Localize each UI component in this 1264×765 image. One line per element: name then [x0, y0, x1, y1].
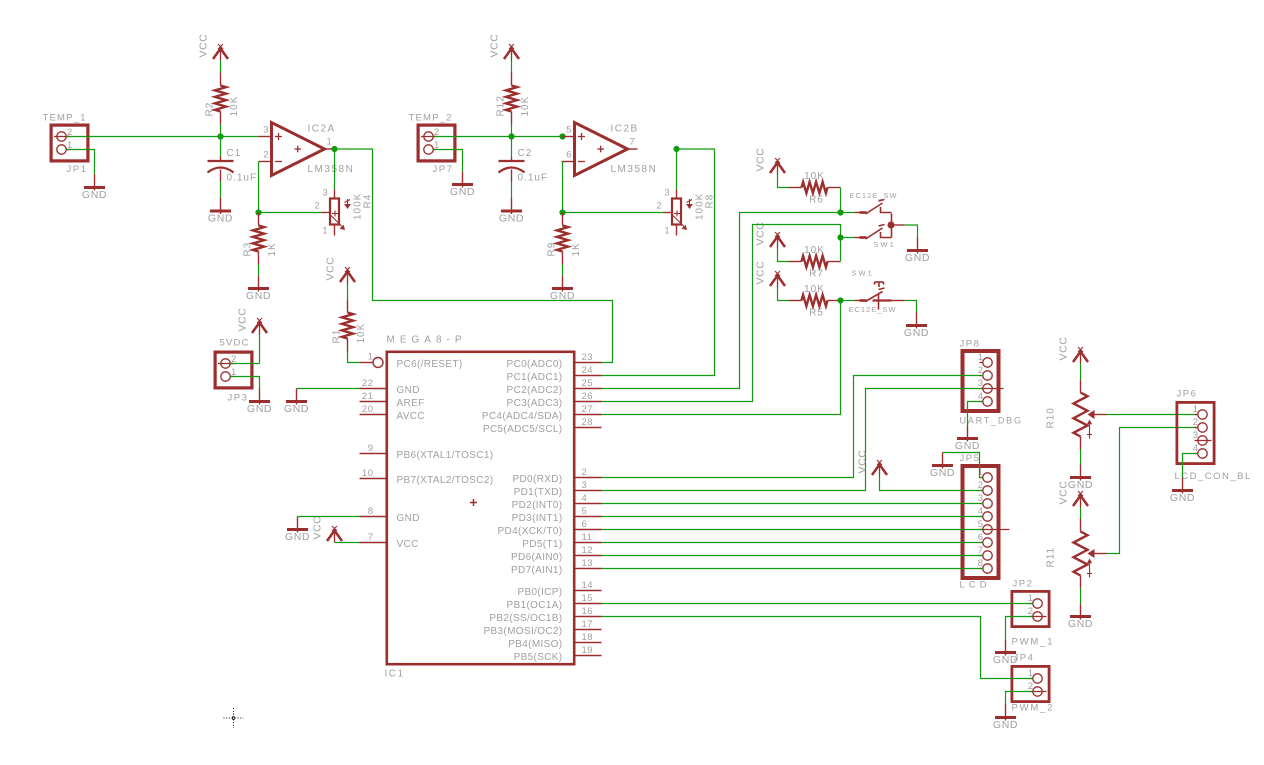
- svg-text:AREF: AREF: [397, 398, 425, 409]
- svg-text:23: 23: [582, 352, 594, 363]
- svg-text:VCC: VCC: [198, 34, 210, 58]
- svg-text:JP8: JP8: [960, 339, 981, 350]
- svg-text:1: 1: [1028, 593, 1033, 604]
- svg-text:2: 2: [582, 467, 588, 478]
- svg-text:JP5: JP5: [960, 453, 981, 464]
- wire: [259, 212, 322, 214]
- power VCC (R1 top): [347, 270, 349, 284]
- svg-text:GND: GND: [208, 213, 233, 225]
- wire (PD7 to JP5.8): [602, 568, 983, 570]
- svg-text:GND: GND: [450, 186, 475, 198]
- potentiometer R11: [1080, 519, 1082, 532]
- svg-text:1: 1: [978, 352, 983, 363]
- svg-text:4: 4: [978, 391, 983, 402]
- svg-text:3: 3: [322, 188, 327, 198]
- svg-text:3: 3: [582, 480, 588, 491]
- svg-text:PD0(RXD): PD0(RXD): [512, 474, 562, 485]
- ground (JP4.2): [1005, 705, 1007, 721]
- power VCC (JP5.2): [879, 463, 881, 477]
- resistor R5 10K: [789, 300, 802, 302]
- ground (JP1): [94, 175, 96, 191]
- capacitor C2 0.1uF: [511, 157, 513, 162]
- ground (C2): [511, 198, 513, 214]
- svg-text:16: 16: [582, 606, 594, 617]
- svg-text:5VDC: 5VDC: [220, 338, 250, 349]
- svg-text:3: 3: [263, 125, 268, 136]
- svg-text:IC1: IC1: [385, 669, 405, 680]
- svg-text:GND: GND: [397, 385, 420, 396]
- op-amp IC2A: [272, 123, 325, 176]
- svg-text:17: 17: [582, 619, 594, 630]
- svg-text:R10: R10: [1046, 407, 1057, 428]
- svg-text:MEGA8-P: MEGA8-P: [387, 335, 467, 346]
- wire: [348, 352, 360, 363]
- svg-text:LCD_CON_BL: LCD_CON_BL: [1175, 471, 1252, 482]
- svg-text:2: 2: [656, 201, 661, 211]
- wire: [434, 150, 463, 172]
- wire (PD1 TXD to JP8.3): [602, 389, 983, 491]
- wire (IC2A out to PC0): [335, 149, 613, 363]
- svg-text:1: 1: [1193, 404, 1198, 415]
- svg-text:LM358N: LM358N: [611, 164, 658, 175]
- wire: [258, 265, 260, 276]
- wire: [778, 249, 789, 262]
- svg-text:10K: 10K: [804, 284, 825, 295]
- svg-text:10K: 10K: [804, 245, 825, 256]
- svg-text:2: 2: [314, 201, 319, 211]
- switch SW1 contact B: [855, 237, 867, 239]
- svg-text:8: 8: [368, 506, 374, 517]
- svg-text:2: 2: [1193, 417, 1198, 428]
- ground (JP7): [462, 172, 464, 188]
- wire: [1080, 450, 1082, 465]
- svg-text:GND: GND: [499, 213, 524, 225]
- svg-text:JP6: JP6: [1177, 389, 1198, 400]
- svg-text:7: 7: [978, 545, 983, 556]
- trimmer R8 100K: [676, 190, 678, 199]
- svg-text:TEMP_1: TEMP_1: [43, 113, 87, 124]
- wire: [231, 377, 260, 389]
- svg-text:27: 27: [582, 404, 594, 415]
- connector JP1 TEMP_1: [51, 125, 88, 161]
- svg-text:20: 20: [362, 404, 374, 415]
- wire (R11 wiper to JP6.2): [1107, 428, 1198, 554]
- wire: [905, 301, 917, 313]
- svg-text:2: 2: [1028, 606, 1033, 617]
- svg-text:TEMP_2: TEMP_2: [409, 113, 453, 124]
- svg-text:VCC: VCC: [755, 261, 767, 285]
- node junction (IC2B out): [673, 146, 679, 152]
- power VCC (R2 top): [220, 47, 222, 61]
- resistor R9 1K: [562, 213, 564, 226]
- svg-text:IC2A: IC2A: [308, 124, 336, 135]
- resistor R6 10K: [789, 187, 802, 189]
- svg-text:1: 1: [368, 352, 374, 363]
- svg-text:2: 2: [978, 480, 983, 491]
- svg-text:SW1: SW1: [874, 240, 896, 249]
- svg-text:22: 22: [362, 378, 374, 389]
- connector JP6 LCD_CON_BL: [1177, 402, 1214, 463]
- wire: [905, 225, 918, 238]
- wire: [258, 162, 260, 213]
- svg-text:PD3(INT1): PD3(INT1): [512, 513, 563, 524]
- svg-text:VCC: VCC: [755, 148, 767, 172]
- svg-text:25: 25: [582, 378, 594, 389]
- svg-text:GND: GND: [955, 440, 980, 452]
- svg-text:6: 6: [566, 150, 571, 161]
- ground (JP3): [259, 389, 261, 405]
- wire: [334, 149, 336, 190]
- resistor R12 10K: [511, 73, 513, 86]
- wire: [347, 284, 349, 300]
- svg-text:SW1: SW1: [852, 269, 874, 278]
- svg-text:GND: GND: [82, 189, 107, 201]
- wire: [563, 212, 664, 214]
- ground (JP6.4): [1182, 478, 1184, 494]
- wire: [1080, 508, 1082, 519]
- wire: [778, 175, 789, 188]
- svg-text:JP3: JP3: [228, 393, 249, 404]
- svg-text:PD1(TXD): PD1(TXD): [514, 487, 563, 498]
- svg-text:PB6(XTAL1/TOSC1): PB6(XTAL1/TOSC1): [397, 450, 494, 461]
- svg-text:10K: 10K: [804, 171, 825, 182]
- wire: [778, 288, 789, 301]
- connector JP4 PWM_2: [1012, 666, 1049, 701]
- ground (SW1 A/B): [917, 238, 919, 254]
- svg-text:EC12E_SW: EC12E_SW: [849, 305, 897, 314]
- svg-text:11: 11: [582, 532, 593, 543]
- svg-text:10K: 10K: [520, 96, 531, 117]
- wire: [676, 149, 678, 190]
- svg-text:R3: R3: [243, 242, 254, 257]
- svg-text:VCC: VCC: [312, 516, 324, 540]
- svg-text:24: 24: [582, 365, 594, 376]
- svg-text:R12: R12: [496, 95, 507, 116]
- ground (SW1 pushbutton): [916, 313, 918, 329]
- svg-text:VCC: VCC: [489, 34, 501, 58]
- wire: [220, 137, 222, 157]
- svg-text:R4: R4: [363, 194, 374, 209]
- svg-text:3: 3: [664, 188, 669, 198]
- ground (R3): [258, 276, 260, 292]
- wire: [298, 516, 360, 518]
- svg-text:VCC: VCC: [755, 222, 767, 246]
- wire: [841, 237, 855, 239]
- wire: [880, 477, 983, 491]
- svg-text:1K: 1K: [571, 242, 582, 256]
- svg-text:PD7(AIN1): PD7(AIN1): [511, 565, 563, 576]
- svg-text:PC5(ADC5/SCL): PC5(ADC5/SCL): [483, 424, 563, 435]
- svg-text:VCC: VCC: [397, 539, 419, 550]
- svg-text:14: 14: [582, 580, 594, 591]
- svg-text:21: 21: [362, 391, 374, 402]
- svg-text:PC6(/RESET): PC6(/RESET): [397, 359, 463, 370]
- svg-text:4: 4: [1193, 443, 1198, 454]
- svg-text:PWM_2: PWM_2: [1012, 703, 1055, 714]
- wire: [231, 363, 260, 365]
- wire: [1080, 364, 1082, 380]
- svg-text:LM358N: LM358N: [308, 164, 355, 175]
- wire: [840, 188, 842, 213]
- svg-text:12: 12: [582, 545, 594, 556]
- node junction: [559, 209, 565, 215]
- svg-text:GND: GND: [285, 531, 310, 543]
- svg-text:2: 2: [263, 150, 268, 161]
- svg-text:PB5(SCK): PB5(SCK): [514, 652, 563, 663]
- wire: [1006, 617, 1033, 640]
- svg-text:8: 8: [978, 558, 983, 569]
- svg-text:GND: GND: [930, 467, 955, 479]
- wire (switch row3 net to PC4): [602, 301, 841, 415]
- wire: [511, 125, 513, 137]
- origin crosshair: [224, 717, 244, 719]
- svg-text:PC3(ADC3): PC3(ADC3): [507, 398, 563, 409]
- svg-text:PD6(AIN0): PD6(AIN0): [511, 552, 563, 563]
- node junction: [255, 209, 261, 215]
- svg-text:VCC: VCC: [237, 308, 249, 332]
- capacitor C1 0.1uF: [220, 157, 222, 162]
- svg-text:GND: GND: [550, 290, 575, 302]
- svg-text:R6: R6: [809, 195, 824, 206]
- ground (JP8.4): [967, 426, 969, 442]
- svg-text:PD4(XCK/T0): PD4(XCK/T0): [498, 526, 563, 537]
- svg-text:2: 2: [978, 365, 983, 376]
- svg-text:GND: GND: [904, 327, 929, 339]
- wire (IC2B out to PC1): [602, 149, 715, 376]
- svg-text:1: 1: [664, 226, 669, 236]
- wire: [511, 61, 513, 73]
- svg-text:PC2(ADC2): PC2(ADC2): [507, 385, 563, 396]
- svg-text:UART_DBG: UART_DBG: [960, 416, 1023, 426]
- svg-text:0.1uF: 0.1uF: [227, 173, 258, 184]
- op-amp IC2B: [575, 123, 628, 176]
- svg-text:GND: GND: [1068, 479, 1093, 491]
- wire: [297, 388, 360, 390]
- svg-text:PC1(ADC1): PC1(ADC1): [507, 372, 563, 383]
- node junction: [837, 297, 843, 303]
- power VCC (R6): [777, 161, 779, 175]
- power VCC (JP3): [259, 321, 261, 335]
- svg-text:GND: GND: [1068, 618, 1093, 630]
- wire (PD4 to JP5.5): [602, 529, 983, 531]
- svg-text:5: 5: [566, 125, 571, 136]
- svg-text:1: 1: [978, 467, 983, 478]
- connector JP7 TEMP_2: [418, 125, 455, 161]
- svg-text:EC12E_SW: EC12E_SW: [850, 191, 898, 200]
- resistor R2 10K: [220, 73, 222, 86]
- ground (R10): [1080, 465, 1082, 481]
- svg-text:PD5(T1): PD5(T1): [522, 539, 562, 550]
- wire: [220, 182, 222, 199]
- wire: [434, 136, 562, 138]
- svg-text:VCC: VCC: [1058, 337, 1070, 361]
- svg-text:JP1: JP1: [67, 164, 88, 175]
- svg-text:1: 1: [1028, 668, 1033, 679]
- node junction: [559, 133, 565, 139]
- wire: [259, 335, 261, 364]
- connector JP2 PWM_1: [1012, 591, 1049, 626]
- wire: [841, 300, 855, 302]
- wire: [511, 182, 513, 199]
- svg-text:9: 9: [368, 443, 374, 454]
- svg-text:GND: GND: [397, 513, 420, 524]
- ground (JP2.2): [1005, 640, 1007, 656]
- wire (switch row2 net to PC3): [602, 225, 841, 402]
- ground (JP5.1): [942, 453, 944, 469]
- wire: [562, 162, 564, 213]
- svg-text:18: 18: [582, 632, 594, 643]
- svg-text:VCC: VCC: [1058, 481, 1070, 505]
- wire (PB1 OC1A to JP2.1): [602, 603, 1033, 605]
- wire: [841, 212, 855, 214]
- ground (R11): [1080, 604, 1082, 620]
- svg-text:PB2(SS/OC1B): PB2(SS/OC1B): [489, 613, 562, 624]
- svg-text:R8: R8: [705, 194, 716, 209]
- svg-text:3: 3: [978, 378, 983, 389]
- svg-text:10K: 10K: [356, 323, 367, 344]
- wire: [892, 300, 905, 302]
- svg-text:C1: C1: [227, 148, 242, 159]
- svg-text:GND: GND: [1170, 492, 1195, 504]
- wire: [1006, 692, 1033, 705]
- svg-text:PB3(MOSI/OC2): PB3(MOSI/OC2): [483, 626, 562, 637]
- wire: [943, 453, 983, 478]
- wire: [511, 137, 513, 157]
- svg-text:6: 6: [978, 532, 983, 543]
- wire: [1183, 454, 1198, 478]
- resistor R7 10K: [789, 261, 802, 263]
- svg-text:5: 5: [978, 519, 983, 530]
- node junction: [508, 133, 514, 139]
- power VCC (R5): [777, 274, 779, 288]
- trimmer R4 100K: [334, 190, 336, 199]
- svg-text:JP7: JP7: [433, 164, 454, 175]
- svg-text:4: 4: [978, 506, 983, 517]
- connector JP3 5VDC: [215, 352, 252, 388]
- switch SW1 contact A: [855, 212, 867, 214]
- resistor R1 10K: [347, 300, 349, 313]
- ground (pin 8): [297, 517, 299, 533]
- svg-text:GND: GND: [284, 403, 309, 415]
- wire: [220, 125, 222, 137]
- svg-text:GND: GND: [247, 403, 272, 415]
- svg-text:10K: 10K: [229, 96, 240, 117]
- svg-text:3: 3: [1193, 430, 1198, 441]
- wire: [67, 150, 95, 175]
- svg-text:1: 1: [327, 137, 332, 148]
- svg-text:C2: C2: [518, 148, 533, 159]
- svg-text:PB7(XTAL2/TOSC2): PB7(XTAL2/TOSC2): [397, 475, 494, 486]
- node junction: [837, 209, 843, 215]
- wire: [968, 402, 983, 426]
- wire: [840, 238, 842, 262]
- svg-text:2: 2: [1028, 681, 1033, 692]
- svg-text:26: 26: [582, 391, 594, 402]
- svg-text:VCC: VCC: [857, 450, 869, 474]
- svg-text:0.1uF: 0.1uF: [518, 173, 549, 184]
- wire: [335, 542, 360, 544]
- svg-text:PB4(MISO): PB4(MISO): [508, 639, 562, 650]
- wire (PD5 to JP5.6): [602, 542, 983, 544]
- svg-text:R2: R2: [205, 102, 216, 117]
- power VCC (R10): [1080, 350, 1082, 364]
- wire (PD6 to JP5.7): [602, 555, 983, 557]
- wire: [67, 136, 259, 138]
- node junction: [837, 234, 843, 240]
- svg-text:4: 4: [582, 493, 588, 504]
- svg-text:5: 5: [582, 506, 588, 517]
- connector JP8 UART_DBG: [963, 351, 999, 411]
- svg-text:IC2B: IC2B: [611, 124, 639, 135]
- svg-text:R7: R7: [809, 269, 824, 280]
- power VCC (R12 top): [511, 47, 513, 61]
- svg-text:6: 6: [582, 519, 588, 530]
- svg-text:PB0(ICP): PB0(ICP): [517, 587, 562, 598]
- wire (PD0 RXD to JP8.2): [602, 376, 983, 478]
- wire: [220, 61, 222, 73]
- svg-text:3: 3: [978, 493, 983, 504]
- svg-text:28: 28: [582, 417, 594, 428]
- svg-text:19: 19: [582, 645, 594, 656]
- svg-text:13: 13: [582, 558, 594, 569]
- svg-text:LCD: LCD: [960, 580, 991, 591]
- node junction (switch common): [891, 214, 893, 238]
- svg-text:PWM_1: PWM_1: [1012, 637, 1055, 648]
- svg-text:7: 7: [368, 532, 374, 543]
- node junction: [217, 133, 223, 139]
- power VCC (R7): [777, 235, 779, 249]
- svg-text:GND: GND: [905, 252, 930, 264]
- svg-text:R11: R11: [1046, 547, 1057, 568]
- wire: [1107, 414, 1198, 416]
- wire (PD2 to JP5.3): [602, 503, 983, 505]
- svg-text:JP4: JP4: [1014, 653, 1035, 664]
- connector JP5 LCD: [963, 466, 999, 578]
- ground (C1): [220, 198, 222, 214]
- svg-text:GND: GND: [993, 719, 1018, 731]
- svg-text:R9: R9: [547, 242, 558, 257]
- wire: [1080, 589, 1082, 604]
- svg-text:R5: R5: [809, 308, 824, 319]
- wire: [562, 265, 564, 276]
- svg-text:15: 15: [582, 593, 594, 604]
- wire (PD3 to JP5.4): [602, 516, 983, 518]
- wire (switch row1 net to PC2): [602, 213, 841, 389]
- ground (R9): [562, 276, 564, 292]
- svg-text:PC4(ADC4/SDA): PC4(ADC4/SDA): [482, 411, 563, 422]
- power VCC (R11): [1080, 494, 1082, 508]
- svg-text:AVCC: AVCC: [397, 411, 425, 422]
- svg-text:PB1(OC1A): PB1(OC1A): [507, 600, 563, 611]
- ground (pin 22): [296, 389, 298, 405]
- power VCC (pin 7): [334, 529, 336, 543]
- svg-text:7: 7: [630, 137, 635, 148]
- svg-text:10: 10: [362, 468, 374, 479]
- svg-text:PD2(INT0): PD2(INT0): [512, 500, 563, 511]
- node junction (IC2A out): [331, 146, 337, 152]
- svg-text:VCC: VCC: [325, 257, 337, 281]
- svg-text:GND: GND: [246, 290, 271, 302]
- svg-text:JP2: JP2: [1013, 579, 1034, 590]
- svg-text:PC0(ADC0): PC0(ADC0): [507, 359, 563, 370]
- potentiometer R10: [1080, 380, 1082, 393]
- resistor R3 1K: [258, 213, 260, 226]
- svg-text:R1: R1: [332, 329, 343, 344]
- switch SW1 pushbutton: [855, 300, 867, 302]
- svg-text:1K: 1K: [267, 242, 278, 256]
- svg-text:1: 1: [322, 226, 327, 236]
- wire (PB2 OC1B to JP4.1): [602, 617, 1033, 679]
